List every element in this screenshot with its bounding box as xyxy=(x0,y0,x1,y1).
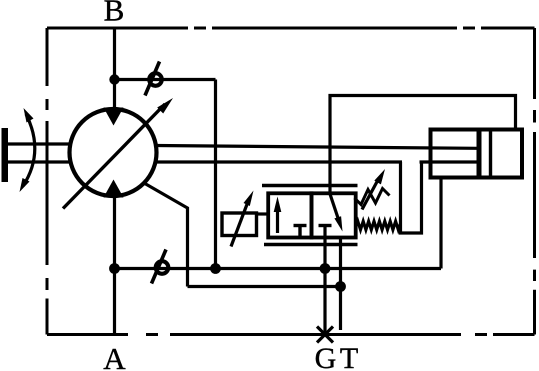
solenoid arrow xyxy=(231,191,254,247)
blocked port T1 xyxy=(294,226,307,238)
check valve CV1 xyxy=(145,62,162,96)
wire: G line xyxy=(323,226,326,335)
proportional rail bottom xyxy=(264,243,358,246)
pump case drain wire xyxy=(144,183,188,287)
node: drain T junction xyxy=(335,281,346,292)
wire: B to check valve CV1 xyxy=(115,78,216,81)
svg-text:T: T xyxy=(340,342,358,371)
enclosure border bottom (dash-dot) xyxy=(47,333,535,336)
node: G rail junction xyxy=(320,263,331,274)
wire: solenoid to valve xyxy=(257,212,269,215)
flow arrow (right position) xyxy=(330,194,343,232)
check valve CV2 xyxy=(152,250,169,284)
enclosure border top (dash-dot) xyxy=(47,27,535,30)
wire: pilot line valve to cylinder head side xyxy=(330,96,516,194)
svg-text:G: G xyxy=(315,342,337,371)
wire: T line xyxy=(339,238,342,331)
enclosure border left (dash-dot) xyxy=(46,28,49,335)
piston rod upper line xyxy=(156,146,477,149)
spring adjust arrow xyxy=(355,169,390,210)
node: CV1 rail junction xyxy=(210,263,221,274)
proportional rail top xyxy=(262,184,358,187)
wire: port A vertical xyxy=(113,196,116,335)
drive shaft xyxy=(2,128,71,182)
wire: drain to T line xyxy=(188,285,341,288)
blocked port T2 xyxy=(319,224,332,227)
svg-text:A: A xyxy=(103,341,126,371)
bidirectional rotation arrow xyxy=(20,108,35,192)
node: B branch junction xyxy=(109,74,119,84)
node: A branch junction xyxy=(109,263,120,274)
variable displacement arrow xyxy=(63,98,173,209)
valve spring xyxy=(356,221,401,230)
hydraulic cylinder xyxy=(431,130,523,178)
pump/motor unit xyxy=(70,108,157,198)
wire: common low rail xyxy=(115,267,442,270)
proportional solenoid box xyxy=(222,213,257,236)
piston rod lower line xyxy=(156,160,402,163)
wire: rail up to cylinder rod-side port xyxy=(439,178,442,269)
control valve body xyxy=(268,193,356,237)
wire: port B vertical xyxy=(113,28,116,110)
enclosure border right (dash-dot) xyxy=(533,28,536,335)
plugged port X at G xyxy=(317,327,333,343)
svg-text:B: B xyxy=(104,0,125,28)
feedback link to rod xyxy=(401,162,422,233)
wire: CV1 down to common rail xyxy=(214,80,217,269)
flow arrow (left position) xyxy=(274,197,282,234)
